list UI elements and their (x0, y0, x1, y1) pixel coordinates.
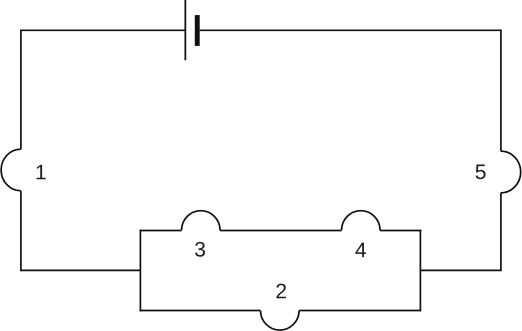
ammeter position 4 (half-circle) (342, 211, 381, 231)
label 1 (37, 165, 46, 179)
wire top-right horizontal (200, 29, 502, 31)
resistor box left edge (139, 230, 141, 312)
ammeter position 3 (half-circle) (182, 211, 221, 231)
battery B1 short thick plate (195, 15, 200, 46)
label 5 (476, 165, 486, 180)
label 2 (276, 284, 286, 299)
resistor box top edge segment b (220, 230, 341, 232)
resistor box top edge segment c (380, 230, 421, 232)
battery B1 long plate (184, 0, 186, 60)
resistor box right edge (419, 230, 421, 312)
wire right vertical lower (500, 193, 502, 271)
resistor box top edge segment a (140, 230, 182, 232)
wire right vertical upper (500, 30, 502, 152)
wire top-left horizontal (20, 29, 184, 31)
resistor box bottom edge segment b (299, 310, 421, 312)
wire bottom-left horizontal (21, 269, 140, 271)
ammeter position 5 (half-circle) (501, 151, 521, 193)
label 3 (195, 242, 205, 257)
ammeter position 1 (half-circle) (1, 149, 21, 191)
wire bottom-right horizontal (420, 269, 501, 271)
wire left vertical upper (20, 30, 22, 150)
wire left vertical lower (20, 191, 22, 271)
ammeter position 2 (half-circle) (261, 311, 300, 331)
resistor box bottom edge segment a (140, 310, 261, 312)
label 4 (355, 243, 366, 257)
